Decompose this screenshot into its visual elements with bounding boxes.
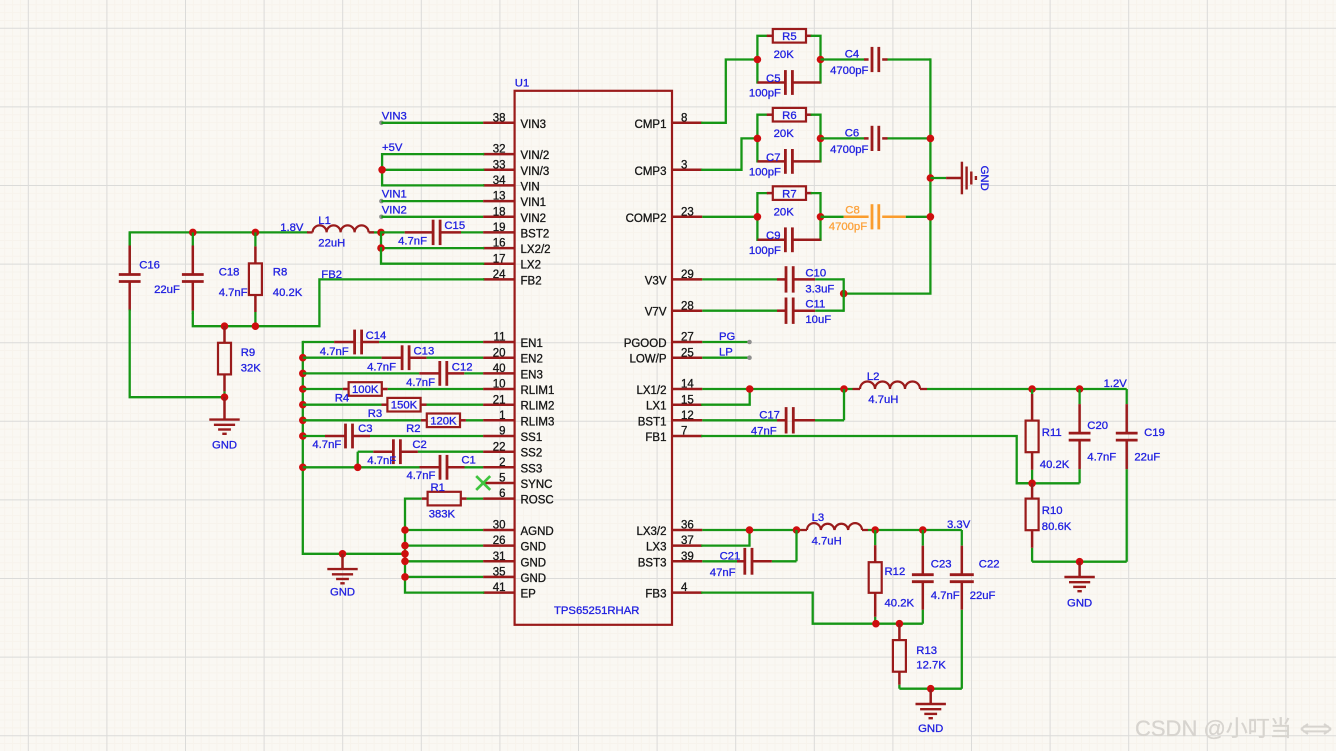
resistor R12 40.2K [869,530,915,624]
capacitor C4 4700pF [821,47,931,77]
inductor L3 4.7uH [801,512,869,547]
capacitor C16 22uF [119,232,180,310]
svg-text:4.7nF: 4.7nF [367,361,396,373]
wire VIN2 [381,216,483,218]
svg-text:GND: GND [330,587,355,599]
wire FB2 node [193,279,483,330]
pin 26 GND [483,535,546,553]
svg-text:U1: U1 [515,78,529,90]
svg-text:RLIM3: RLIM3 [521,416,555,428]
svg-text:EN3: EN3 [521,369,543,381]
pin 19 BST2 [483,222,549,240]
svg-text:RLIM2: RLIM2 [521,401,555,413]
svg-text:C2: C2 [412,439,426,451]
svg-text:24: 24 [493,269,506,281]
pin 23 COMP2 [626,206,703,224]
svg-text:30: 30 [493,520,506,532]
pin 41 EP [483,582,536,600]
capacitor C11 10uF [702,298,843,326]
wire 3.3V rail [868,526,962,534]
svg-text:C17: C17 [759,410,780,422]
ground GND middle [327,554,357,599]
svg-text:VIN2: VIN2 [521,213,547,225]
svg-text:COMP2: COMP2 [626,213,667,225]
svg-text:GND: GND [521,557,547,569]
wire C16 to ground [130,311,225,398]
svg-text:L2: L2 [867,371,880,383]
svg-text:40: 40 [493,363,506,375]
wire BST1 to LX1 [843,389,845,420]
svg-text:CMP1: CMP1 [635,119,667,131]
net label +5V [382,142,403,154]
svg-text:100pF: 100pF [749,245,781,257]
svg-text:C18: C18 [219,267,240,279]
pin 40 EN3 [483,363,543,381]
svg-text:32K: 32K [241,363,262,375]
pin 27 PGOOD [624,332,703,350]
svg-text:22uF: 22uF [154,284,180,296]
svg-text:GND: GND [521,542,547,554]
wire comp output rail to GND [840,60,934,298]
svg-text:C16: C16 [139,260,160,272]
svg-text:SS1: SS1 [521,432,543,444]
net label VIN1 [379,189,407,204]
resistor R9 32K [218,326,261,397]
svg-text:4.7uH: 4.7uH [868,394,898,406]
svg-text:4.7nF: 4.7nF [407,470,436,482]
resistor R7 20K with capacitor C9 100pF [749,186,824,256]
svg-text:31: 31 [493,551,506,563]
svg-text:13: 13 [493,191,506,203]
svg-text:4.7nF: 4.7nF [219,287,248,299]
capacitor C12 4.7nF [303,361,483,389]
svg-text:R7: R7 [782,188,796,200]
svg-text:C22: C22 [979,559,1000,571]
pin 3 CMP3 [635,159,703,177]
capacitor C18 4.7nF [182,232,248,314]
net label 3.3V [947,519,971,531]
svg-text:C4: C4 [845,49,859,61]
svg-text:22uH: 22uH [318,238,345,250]
svg-text:R12: R12 [885,566,906,578]
ground GND buck1 [1064,562,1094,610]
svg-text:LX2/2: LX2/2 [521,244,551,256]
svg-text:22uF: 22uF [1134,452,1160,464]
pin 24 FB2 [483,269,541,287]
svg-text:4.7nF: 4.7nF [406,377,435,389]
svg-text:40.2K: 40.2K [1040,459,1070,471]
svg-text:383K: 383K [429,508,456,520]
svg-text:C6: C6 [845,128,859,140]
svg-text:28: 28 [681,300,694,312]
wire VIN3 [381,122,483,124]
pin 15 LX1 [646,394,702,412]
inductor L1 [307,215,374,250]
pin 34 VIN [483,175,540,193]
wire +5V to VIN/2 VIN/3 VIN [378,154,483,185]
net label VIN2 [379,204,407,219]
pin 17 LX2 [483,253,541,271]
svg-text:16: 16 [493,238,506,250]
pin 1 RLIM3 [483,410,554,428]
svg-text:20: 20 [493,347,506,359]
svg-text:C21: C21 [720,551,741,563]
svg-text:C12: C12 [452,361,473,373]
svg-text:C11: C11 [805,298,825,310]
wire COMP2 to comp network [702,216,757,218]
ground GND left [209,397,239,451]
svg-text:3: 3 [681,159,687,171]
svg-text:EP: EP [521,589,537,601]
svg-text:FB1: FB1 [645,432,666,444]
svg-text:LX3: LX3 [646,542,666,554]
svg-text:BST1: BST1 [638,416,667,428]
svg-text:27: 27 [681,332,694,344]
pin 10 RLIM1 [483,379,554,397]
svg-text:29: 29 [681,269,694,281]
pin 33 VIN/3 [483,159,549,177]
svg-text:47nF: 47nF [710,567,736,579]
svg-text:V7V: V7V [645,307,667,319]
wire AGND rail [401,499,483,593]
capacitor C13 4.7nF [303,345,483,373]
svg-text:RLIM1: RLIM1 [521,385,555,397]
watermark [1135,716,1331,741]
wire LX2 node [377,229,483,264]
svg-text:4.7uH: 4.7uH [812,535,842,547]
svg-text:L3: L3 [812,512,825,524]
svg-text:VIN: VIN [521,181,540,193]
inductor L2 4.7uH [853,371,928,406]
svg-text:CSDN @小叮当: CSDN @小叮当 [1135,716,1292,741]
no-connect X on SYNC pin 5 [476,476,490,490]
pin 38 VIN3 [483,112,546,130]
svg-text:2: 2 [499,457,505,469]
net label LP [719,347,733,359]
svg-text:41: 41 [493,582,506,594]
svg-text:4: 4 [681,582,688,594]
svg-text:7: 7 [681,426,687,438]
svg-text:GND: GND [521,573,547,585]
svg-text:FB2: FB2 [321,269,342,281]
capacitor C2 4.7nF [358,439,483,467]
svg-text:AGND: AGND [521,526,554,538]
wire BST3 to LX3 [795,530,797,561]
svg-text:10uF: 10uF [805,314,831,326]
svg-text:34: 34 [493,175,506,187]
svg-text:C9: C9 [766,230,780,242]
pin 18 VIN2 [483,206,546,224]
svg-text:TPS65251RHAR: TPS65251RHAR [554,605,639,617]
pin 7 FB1 [645,426,702,444]
svg-text:LX1: LX1 [646,401,666,413]
svg-text:C10: C10 [805,267,826,279]
pin 28 V7V [645,300,703,318]
pin 37 LX3 [646,535,702,553]
svg-text:20K: 20K [774,206,795,218]
wire LX3 node [702,526,800,545]
svg-text:EN1: EN1 [521,338,543,350]
capacitor C20 4.7nF [1069,389,1117,483]
svg-text:4700pF: 4700pF [830,144,868,156]
net label VIN3 [379,110,407,125]
svg-text:C19: C19 [1144,427,1165,439]
svg-text:10: 10 [493,379,506,391]
resistor R4 100K [303,382,483,404]
svg-text:SS3: SS3 [521,463,543,475]
svg-text:22uF: 22uF [970,590,996,602]
svg-text:12: 12 [681,410,694,422]
svg-text:R1: R1 [431,482,445,494]
svg-text:R3: R3 [368,408,382,420]
pin 11 EN1 [483,332,543,350]
svg-text:GND: GND [918,723,943,735]
svg-text:4700pF: 4700pF [829,221,867,233]
pin 13 VIN1 [483,191,546,209]
svg-text:6: 6 [499,488,505,500]
svg-text:C1: C1 [461,455,475,467]
wire FB3 [702,593,876,624]
svg-text:38: 38 [493,112,506,124]
svg-text:GND: GND [212,440,237,452]
pin 30 AGND [483,520,554,538]
wire FB1 node [1017,480,1080,488]
svg-text:12.7K: 12.7K [916,660,946,672]
svg-text:V3V: V3V [645,275,667,287]
svg-text:26: 26 [493,535,506,547]
svg-text:VIN/2: VIN/2 [521,150,550,162]
capacitor C8 4700pF highlighted orange [821,204,931,233]
capacitor C6 4700pF [821,126,931,156]
pin 8 CMP1 [635,112,703,130]
svg-text:3.3V: 3.3V [947,519,971,531]
pin 29 V3V [645,269,703,287]
svg-text:ROSC: ROSC [521,495,554,507]
pin 25 LOW/P [629,347,702,365]
svg-text:R11: R11 [1042,427,1062,439]
resistor R10 80.6K [1026,483,1072,561]
svg-text:SS2: SS2 [521,448,543,460]
wire CMP1 to comp network [702,60,757,123]
svg-text:R4: R4 [335,393,349,405]
pin 39 BST3 [638,551,703,569]
capacitor C23 4.7nF [912,530,960,624]
svg-text:19: 19 [493,222,506,234]
pin 2 SS3 [483,457,542,475]
junction AGND node [221,393,229,401]
capacitor C19 22uF [1116,389,1165,562]
svg-text:R2: R2 [406,423,420,435]
svg-text:R8: R8 [273,267,287,279]
svg-text:R9: R9 [241,347,255,359]
resistor R3 150K [303,398,483,420]
wire PG [702,340,752,345]
svg-text:LX1/2: LX1/2 [636,385,666,397]
svg-text:100pF: 100pF [749,88,781,100]
svg-text:33: 33 [493,159,506,171]
wire 1.8V rail [130,229,381,274]
resistor R8 40.2K [249,232,303,326]
svg-text:C23: C23 [931,559,952,571]
net label FB2 [321,269,342,281]
svg-text:BST3: BST3 [638,557,667,569]
svg-text:8: 8 [681,112,687,124]
svg-text:EN2: EN2 [521,354,543,366]
svg-text:20K: 20K [774,128,795,140]
svg-text:VIN3: VIN3 [382,110,407,122]
svg-text:R5: R5 [782,31,796,43]
svg-text:17: 17 [493,253,506,265]
svg-text:150K: 150K [391,400,418,412]
svg-text:FB2: FB2 [521,275,542,287]
svg-text:9: 9 [499,426,505,438]
svg-text:21: 21 [493,394,506,406]
svg-text:C5: C5 [766,73,780,85]
pin 12 BST1 [638,410,703,428]
pin 14 LX1/2 [636,379,702,397]
resistor R1 383K [405,482,483,520]
capacitor C21 47nF [702,548,796,579]
wire EN-SS rail [299,342,405,554]
capacitor C15 4.7nF [381,220,483,248]
IC U1 TPS65251RHAR [515,78,672,625]
net label PG [719,331,735,343]
pin 35 GND [483,567,546,585]
svg-text:11: 11 [494,332,506,344]
ground GND buck3 [916,689,946,735]
svg-text:39: 39 [681,551,694,563]
net label 1.2V [1104,378,1128,390]
svg-text:100pF: 100pF [749,166,781,178]
capacitor C22 22uF [950,530,1000,689]
wire buck3 ground rail [899,685,961,693]
svg-text:SYNC: SYNC [521,479,553,491]
pin 22 SS2 [483,441,542,459]
svg-text:L1: L1 [318,215,331,227]
svg-text:VIN1: VIN1 [521,197,547,209]
resistor R13 12.7K [893,624,946,689]
capacitor C14 4.7nF [303,330,483,358]
svg-text:1.2V: 1.2V [1104,378,1128,390]
svg-text:VIN1: VIN1 [382,189,407,201]
pin 31 GND [483,551,546,569]
junction ground node [339,550,347,558]
svg-text:35: 35 [493,567,506,579]
svg-text:4700pF: 4700pF [830,65,868,77]
pin 5 SYNC [483,473,552,491]
svg-text:C15: C15 [444,220,465,232]
svg-text:C3: C3 [358,423,372,435]
svg-text:25: 25 [681,347,694,359]
capacitor C3 4.7nF [303,423,483,451]
pin 36 LX3/2 [636,520,702,538]
wire V3V V7V junction [843,279,845,310]
svg-text:C20: C20 [1087,420,1108,432]
svg-text:4.7nF: 4.7nF [367,455,396,467]
svg-text:4.7nF: 4.7nF [398,236,427,248]
svg-text:18: 18 [493,206,506,218]
svg-text:+5V: +5V [382,142,403,154]
svg-text:BST2: BST2 [521,228,550,240]
svg-text:VIN3: VIN3 [521,119,547,131]
svg-text:4.7nF: 4.7nF [312,439,341,451]
capacitor C17 47nF [702,407,844,437]
resistor R6 20K with capacitor C7 100pF [749,108,824,178]
pin 4 FB3 [645,582,702,600]
svg-text:GND: GND [978,166,990,191]
capacitor C10 3.3uF [702,266,843,295]
capacitor C1 4.7nF [303,455,483,483]
svg-text:C13: C13 [414,346,435,358]
pin 16 LX2/2 [483,238,550,256]
pin 21 RLIM2 [483,394,554,412]
svg-text:VIN2: VIN2 [382,204,407,216]
svg-text:5: 5 [499,473,505,485]
pin 32 VIN/2 [483,144,549,162]
wire FB1 [702,436,1032,483]
svg-text:R6: R6 [782,110,796,122]
svg-text:4.7nF: 4.7nF [1087,452,1116,464]
wire buck1 ground rail [1032,558,1127,566]
svg-text:C8: C8 [845,204,859,216]
resistor R5 20K with capacitor C5 100pF [749,29,824,100]
wire 1.2V rail [927,385,1127,393]
svg-text:LOW/P: LOW/P [629,354,666,366]
resistor R11 40.2K [1026,389,1070,483]
svg-text:1: 1 [499,410,505,422]
svg-text:37: 37 [681,535,694,547]
svg-text:23: 23 [681,206,694,218]
svg-text:14: 14 [681,379,694,391]
svg-text:40.2K: 40.2K [273,287,303,299]
svg-text:C14: C14 [366,330,387,342]
wire LP [702,355,752,360]
svg-text:3.3uF: 3.3uF [805,284,834,296]
net label 1.8V [280,222,304,234]
svg-text:36: 36 [681,520,694,532]
svg-text:22: 22 [493,441,506,453]
svg-text:CMP3: CMP3 [635,166,667,178]
svg-text:LX2: LX2 [521,260,541,272]
resistor R2 120K [303,414,483,436]
svg-text:120K: 120K [430,415,457,427]
svg-text:100K: 100K [352,384,379,396]
wire CMP3 to comp network [702,138,757,169]
svg-text:PGOOD: PGOOD [624,338,667,350]
svg-text:4.7nF: 4.7nF [931,590,960,602]
svg-text:20K: 20K [774,49,795,61]
svg-text:LX3/2: LX3/2 [636,526,666,538]
svg-text:15: 15 [681,394,694,406]
wire FB3 node [872,620,923,628]
svg-text:40.2K: 40.2K [885,598,915,610]
pin 9 SS1 [483,426,542,444]
wire LX1 node [702,385,852,405]
svg-text:R10: R10 [1042,505,1063,517]
svg-text:80.6K: 80.6K [1042,521,1072,533]
svg-text:GND: GND [1067,598,1092,610]
svg-text:4.7nF: 4.7nF [320,346,349,358]
svg-text:R13: R13 [916,645,937,657]
svg-text:32: 32 [493,144,506,156]
wire VIN1 [381,200,483,202]
svg-text:FB3: FB3 [645,589,666,601]
svg-text:VIN/3: VIN/3 [521,166,550,178]
pin 20 EN2 [483,347,543,365]
svg-text:C7: C7 [766,152,780,164]
pin 6 ROSC [483,488,554,506]
ground GND top right [930,162,990,195]
